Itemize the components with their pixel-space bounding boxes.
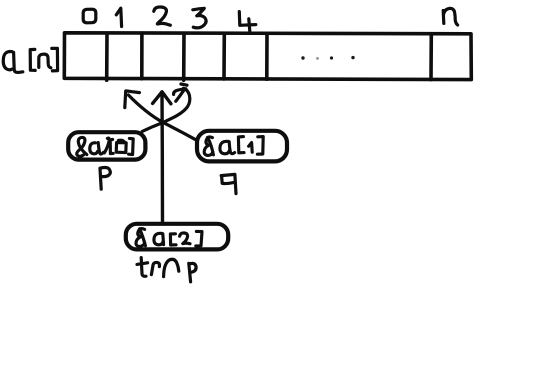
index label 0 bbox=[83, 9, 96, 23]
cell divider 3|4 bbox=[222, 33, 226, 79]
ellipsis dots bbox=[301, 56, 354, 60]
arrow from q box to cell 1 (upper-left arrowhead) bbox=[125, 91, 197, 140]
label p bbox=[100, 168, 110, 190]
cell divider ...|n bbox=[429, 34, 433, 80]
array box bbox=[64, 33, 471, 80]
pointer box q outline bbox=[197, 131, 287, 162]
pointer box tmp outline bbox=[126, 224, 228, 250]
index label 2 bbox=[154, 7, 171, 25]
curled swap arrow from p box bbox=[142, 84, 190, 131]
cell divider 0|1 bbox=[105, 34, 109, 81]
cell divider 4|... bbox=[265, 33, 269, 79]
cell divider 1|2 bbox=[140, 34, 144, 79]
text &a[2] in tmp box bbox=[136, 229, 202, 247]
index label 4 bbox=[239, 12, 256, 32]
cell divider 2|3 bbox=[182, 33, 186, 80]
text &a[1] in q box bbox=[204, 137, 263, 156]
label q bbox=[221, 174, 236, 193]
index label 1 bbox=[116, 8, 121, 26]
index label 3 bbox=[193, 8, 206, 28]
pointer box p outline bbox=[68, 132, 145, 159]
vertical arrow from tmp box to cell 2 bbox=[153, 92, 171, 224]
text &a[2] in p box bbox=[77, 137, 133, 156]
label tmp bbox=[137, 258, 196, 282]
label a[n] bbox=[3, 48, 57, 72]
index label n bbox=[443, 8, 457, 25]
